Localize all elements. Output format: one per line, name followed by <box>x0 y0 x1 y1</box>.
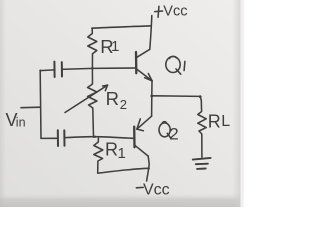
transistor Q1 <box>136 49 152 81</box>
svg-text:2: 2 <box>120 97 127 112</box>
svg-text:2: 2 <box>169 125 178 144</box>
svg-text:R: R <box>208 112 221 132</box>
wire top rail <box>92 26 151 28</box>
svg-text:R: R <box>105 140 118 160</box>
svg-text:1: 1 <box>111 38 119 55</box>
resistor R2 (variable) <box>65 68 108 137</box>
label R1 (top) <box>100 36 119 57</box>
resistor RL <box>198 97 206 158</box>
label Q1 <box>166 56 185 74</box>
wire Q1 emitter to Q2 emitter <box>151 81 153 116</box>
wire output node to RL <box>152 95 200 98</box>
capacitor C1 (top) <box>40 62 62 77</box>
capacitor C2 (bottom) <box>41 130 65 146</box>
svg-text:Vcc: Vcc <box>143 182 170 199</box>
label Q2 <box>159 122 179 144</box>
wire Vin input vertical <box>39 71 42 139</box>
wire +Vcc lead to Q1 collector <box>150 16 152 50</box>
resistor R1 (bottom) <box>94 138 103 173</box>
wire bottom rail <box>98 168 149 173</box>
label +Vcc <box>155 3 188 19</box>
wire C2 to Q2 base <box>65 137 134 139</box>
svg-text:1: 1 <box>118 145 126 162</box>
transistor Q2 <box>134 116 151 156</box>
terminal Vin lead <box>21 106 40 109</box>
svg-text:in: in <box>16 116 26 130</box>
label RL <box>208 112 231 132</box>
label R2 <box>106 88 127 112</box>
ground <box>193 158 211 169</box>
label -Vcc <box>136 182 169 199</box>
node junction dots <box>39 67 201 169</box>
svg-text:R: R <box>106 88 119 109</box>
wire C1 to Q1 base <box>63 68 136 69</box>
label Vin <box>6 110 26 130</box>
resistor R1 (top) <box>88 28 97 68</box>
svg-text:Vcc: Vcc <box>163 3 187 19</box>
wire Q2 collector to -Vcc <box>147 156 150 181</box>
svg-text:L: L <box>221 113 230 130</box>
label R1 (bottom) <box>105 140 126 163</box>
